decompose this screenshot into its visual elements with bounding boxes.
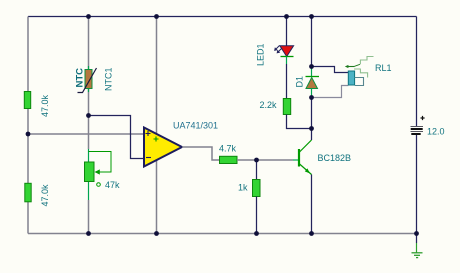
node bottom rail / ground [414, 231, 419, 236]
svg-text:1k: 1k [238, 183, 248, 193]
wire emitter [311, 175, 313, 234]
label 47k (pot) [97, 180, 120, 190]
wire relay coil top feed [312, 67, 349, 73]
resistor R1 47.0k [24, 92, 30, 109]
wire right rail lower [416, 134, 418, 234]
battery V1 [411, 116, 425, 134]
svg-text:12.0: 12.0 [427, 127, 445, 137]
wire 2.2k to collector node [287, 115, 312, 129]
wire 1k column lower [256, 197, 258, 234]
diode D1 [306, 67, 320, 98]
node top rail / LED column [284, 14, 289, 19]
svg-text:4.7k: 4.7k [219, 144, 237, 154]
node top rail / mid rail [154, 14, 159, 19]
wire op-amp output [182, 147, 220, 160]
relay RL1 [345, 57, 374, 86]
svg-text:NTC: NTC [75, 68, 86, 88]
wire noninverting input [28, 133, 145, 135]
svg-text:NTC1: NTC1 [104, 67, 114, 91]
wire LED column upper [286, 17, 288, 47]
svg-text:47.0k: 47.0k [40, 94, 50, 117]
svg-text:RL1: RL1 [375, 63, 392, 73]
resistor R2 47.0k [25, 183, 31, 202]
wire top rail [28, 16, 417, 18]
svg-text:47k: 47k [105, 180, 120, 190]
svg-text:BC182B: BC182B [318, 153, 352, 163]
svg-text:47.0k: 47.0k [40, 184, 50, 207]
ground [412, 234, 423, 258]
wire collector [311, 129, 313, 141]
wire base node [237, 159, 299, 161]
node top rail / D1 column [309, 14, 314, 19]
node D1 cathode / relay top [309, 64, 314, 69]
svg-text:2.2k: 2.2k [260, 100, 278, 110]
wire inverting input from NTC node [89, 116, 146, 159]
node bottom rail / pot column [86, 231, 91, 236]
wire LED to 2.2k [286, 57, 288, 99]
node base / 1k [254, 158, 259, 163]
node D1 anode / relay bottom [309, 95, 314, 100]
node NTC / pot / inverting input [86, 113, 91, 118]
node bottom rail / 1k [254, 231, 259, 236]
thermistor NTC1 [78, 66, 97, 93]
wire NTC column [88, 17, 90, 116]
wire left rail [27, 17, 29, 234]
svg-text:LED1: LED1 [256, 43, 266, 66]
svg-text:D1: D1 [295, 76, 305, 88]
potentiometer R3 47k [85, 152, 112, 182]
op-amp U1 [144, 128, 182, 167]
wire mid power rail [156, 17, 158, 234]
LED1 [274, 46, 294, 57]
transistor Q1 BC182B [299, 140, 312, 175]
svg-text:UA741/301: UA741/301 [173, 121, 218, 131]
node top rail / NTC column [86, 14, 91, 19]
wire bottom rail [28, 233, 417, 235]
node bottom rail / emitter [309, 231, 314, 236]
wire D1 column top [311, 17, 313, 67]
node collector / 2.2k [309, 126, 314, 131]
resistor R4 4.7k [220, 156, 238, 163]
wire right rail upper [416, 17, 418, 127]
node bottom rail / mid rail [154, 231, 159, 236]
resistor R5 1k [253, 180, 261, 197]
wire D1 bottom to collector node [311, 98, 313, 129]
wire 1k column upper [256, 160, 258, 180]
resistor R6 2.2k [283, 99, 290, 115]
wire relay coil bottom feed [312, 86, 349, 98]
wire pot column [88, 115, 90, 234]
node left rail divider [26, 132, 31, 137]
